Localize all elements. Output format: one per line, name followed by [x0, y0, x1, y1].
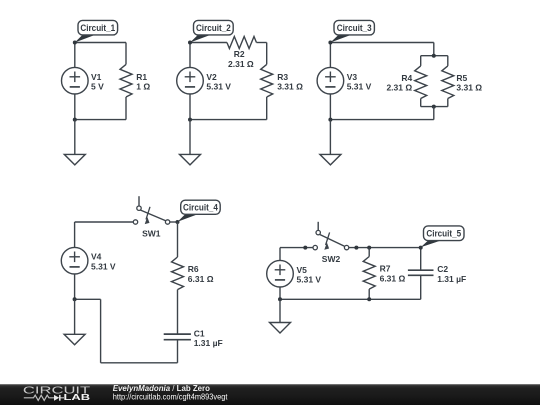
svg-text:R6: R6 [188, 264, 199, 274]
wire top-left Circuit_5 [280, 248, 313, 261]
resistor R1 [120, 43, 132, 120]
R4 value label 2.31 ohm [386, 83, 412, 93]
svg-text:1.31 µF: 1.31 µF [194, 338, 223, 348]
junction node bottom of V4 [73, 297, 77, 301]
voltage source V4 [61, 247, 88, 299]
resistor R3 [261, 43, 273, 120]
svg-text:3.31 Ω: 3.31 Ω [456, 83, 482, 93]
junction node parallel top [432, 54, 436, 58]
svg-text:V3: V3 [347, 72, 358, 82]
resistor R4 [415, 56, 427, 107]
svg-text:5.31 V: 5.31 V [91, 261, 116, 271]
node Circuit_1 top junction [73, 41, 77, 45]
R1 value label 1 ohm [136, 82, 150, 92]
resistor R2 [227, 37, 257, 49]
wire parallel top bar Circuit_3 [421, 55, 448, 57]
ground Circuit_2 [180, 154, 201, 165]
V3 name label [347, 72, 358, 82]
voltage source V1 [62, 43, 89, 120]
wire R7 node to C2 node [369, 247, 421, 249]
label Circuit_5 [421, 226, 464, 247]
V1 value label 5 V [91, 82, 104, 92]
V5 value label 5.31 V [297, 275, 322, 285]
R7 value label 6.31 ohm [380, 273, 406, 283]
wire SW1 to node [170, 221, 178, 223]
label Circuit_4 [178, 200, 221, 222]
wire top Circuit_3 [330, 43, 433, 56]
svg-text:2.31 Ω: 2.31 Ω [386, 83, 412, 93]
wire to ground Circuit_1 [74, 120, 76, 155]
svg-text:C2: C2 [437, 264, 448, 274]
junction node parallel bottom [432, 105, 436, 109]
svg-text:2.31 Ω: 2.31 Ω [228, 59, 254, 69]
svg-text:5.31 V: 5.31 V [347, 82, 372, 92]
node Circuit_2 top junction [188, 41, 192, 45]
resistor R5 [442, 56, 454, 107]
R6 value label 6.31 ohm [188, 274, 214, 284]
svg-text:LAB: LAB [64, 392, 91, 402]
svg-text:V4: V4 [91, 252, 102, 262]
C1 name label [194, 328, 205, 338]
svg-text:R2: R2 [234, 49, 245, 59]
svg-text:5.31 V: 5.31 V [206, 82, 231, 92]
V1 name label [91, 72, 102, 82]
svg-text:V5: V5 [297, 265, 308, 275]
R2 name label [234, 49, 245, 59]
wire bottom Circuit_1 [75, 119, 126, 121]
svg-text:Circuit_1: Circuit_1 [80, 23, 115, 33]
wire bottom Circuit_3 [330, 107, 433, 120]
V2 name label [206, 72, 217, 82]
capacitor C2 [408, 248, 434, 300]
R5 value label 3.31 ohm [456, 83, 482, 93]
svg-text:V1: V1 [91, 72, 102, 82]
wire to ground Circuit_3 [329, 120, 331, 155]
footer url line [113, 393, 228, 402]
wire bottom loop Circuit_4 [75, 299, 178, 363]
C2 name label [437, 264, 448, 274]
svg-text:R7: R7 [380, 264, 391, 274]
label Circuit_2 [190, 20, 233, 42]
wire bottom Circuit_2 [190, 119, 267, 121]
wire to ground Circuit_5 [279, 299, 281, 322]
junction node bottom of V1 [73, 118, 77, 122]
resistor R7 [363, 248, 375, 300]
wire top-right Circuit_2 [256, 42, 266, 44]
svg-text:Circuit_4: Circuit_4 [183, 202, 218, 212]
svg-text:R3: R3 [277, 72, 288, 82]
junction node left of SW2 [303, 246, 307, 250]
junction node bottom of V2 [188, 118, 192, 122]
V3 value label 5.31 V [347, 82, 372, 92]
capacitor C1 [164, 334, 191, 363]
svg-text:6.31 Ω: 6.31 Ω [188, 274, 214, 284]
ground Circuit_5 [270, 323, 291, 334]
R2 value label 2.31 ohm [228, 59, 254, 69]
svg-text:1.31 µF: 1.31 µF [437, 274, 466, 284]
svg-text:SW2: SW2 [322, 254, 341, 264]
R3 name label [277, 72, 288, 82]
svg-text:Circuit_2: Circuit_2 [196, 23, 231, 33]
R5 name label [456, 73, 467, 83]
resistor R6 [172, 222, 184, 334]
voltage source V5 [267, 260, 294, 299]
junction node bottom of V5 [278, 297, 282, 301]
wire SW2 to R7 node [349, 247, 369, 249]
wire parallel bottom bar Circuit_3 [421, 106, 448, 108]
switch SW1 [133, 196, 170, 224]
label Circuit_1 [75, 20, 118, 42]
CircuitLab logo resistor-diode glyph [24, 395, 64, 401]
V4 value label 5.31 V [91, 261, 116, 271]
SW1 name label [142, 229, 161, 239]
node Circuit_3 top junction [328, 41, 332, 45]
V4 name label [91, 252, 102, 262]
C2 value label 1.31 uF [437, 274, 466, 284]
junction node R7 bottom [367, 297, 371, 301]
wire top Circuit_1 [75, 42, 126, 44]
node Circuit_4 junction [176, 220, 180, 224]
CircuitLab logo CIRCUIT text [23, 385, 90, 396]
svg-text:R5: R5 [456, 73, 467, 83]
junction node R7 top [367, 246, 371, 250]
junction node bottom of V3 [328, 118, 332, 122]
svg-text:EvelynMadonia / Lab Zero: EvelynMadonia / Lab Zero [113, 384, 210, 393]
voltage source V3 [317, 43, 344, 120]
SW2 name label [322, 254, 341, 264]
wire top-left Circuit_4 [75, 222, 134, 248]
wire to ground Circuit_2 [189, 120, 191, 155]
svg-text:V2: V2 [206, 72, 217, 82]
svg-text:Circuit_5: Circuit_5 [426, 229, 461, 239]
svg-text:1 Ω: 1 Ω [136, 82, 150, 92]
wire bottom Circuit_5 [280, 298, 421, 300]
svg-text:R4: R4 [401, 73, 412, 83]
svg-text:C1: C1 [194, 328, 205, 338]
V5 name label [297, 265, 308, 275]
label Circuit_3 [330, 20, 374, 42]
R1 name label [136, 72, 147, 82]
node Circuit_5 C2 top junction [419, 246, 423, 250]
ground Circuit_1 [64, 154, 85, 165]
V2 value label 5.31 V [206, 82, 231, 92]
svg-text:R1: R1 [136, 72, 147, 82]
R4 name label [401, 73, 412, 83]
wire to ground Circuit_4 [74, 299, 76, 334]
svg-text:6.31 Ω: 6.31 Ω [380, 273, 406, 283]
junction node right of SW2 [354, 246, 358, 250]
ground Circuit_4 [64, 334, 85, 345]
svg-text:3.31 Ω: 3.31 Ω [277, 82, 303, 92]
C1 value label 1.31 uF [194, 338, 223, 348]
wire top-left Circuit_2 [190, 42, 227, 44]
ground Circuit_3 [320, 154, 341, 165]
R3 value label 3.31 ohm [277, 82, 303, 92]
svg-text:5 V: 5 V [91, 82, 104, 92]
CircuitLab logo LAB text [64, 392, 91, 402]
svg-text:Circuit_3: Circuit_3 [337, 23, 372, 33]
R7 name label [380, 264, 391, 274]
svg-text:SW1: SW1 [142, 229, 161, 239]
R6 name label [188, 264, 199, 274]
voltage source V2 [177, 43, 204, 120]
svg-text:http://circuitlab.com/cgft4m89: http://circuitlab.com/cgft4m893vegt [113, 393, 228, 402]
svg-text:5.31 V: 5.31 V [297, 275, 322, 285]
switch SW2 [313, 222, 349, 250]
footer author/title line [113, 384, 210, 393]
